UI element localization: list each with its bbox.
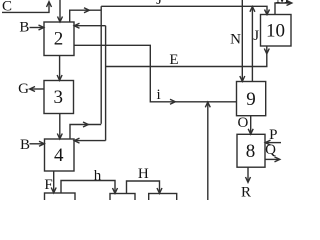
box 9 [237, 82, 266, 116]
svg-text:G: G [18, 81, 29, 97]
arrowhead E into box 2 [74, 23, 79, 28]
arrowhead into box 2 top [58, 17, 63, 22]
arrowhead J into box 10 top [265, 10, 270, 15]
arrowhead E down below box 10 [264, 49, 269, 54]
wire E branch into box 4 right [75, 140, 106, 142]
arrowhead box 4 J branch right [83, 122, 88, 127]
arrowhead B into box 4 [39, 141, 44, 146]
arrowhead H down [157, 188, 162, 193]
arrowhead riser up [205, 102, 210, 107]
arrowhead E into box 4 [74, 138, 79, 143]
svg-text:P: P [269, 127, 277, 143]
svg-text:J: J [156, 0, 162, 8]
wire B feed into box 2 [30, 27, 44, 29]
svg-text:R: R [241, 185, 251, 201]
svg-text:M: M [276, 0, 289, 7]
wire h from box 5 to box 6 [61, 181, 115, 194]
wire J branch from box 4 top [70, 125, 101, 140]
svg-text:F: F [44, 177, 52, 193]
svg-text:B: B [19, 19, 29, 35]
svg-text:O: O [237, 115, 248, 131]
svg-text:N: N [230, 32, 241, 48]
svg-text:E: E [169, 52, 178, 68]
wire G output from box 3 [30, 88, 44, 90]
box 2 [44, 22, 74, 56]
svg-text:3: 3 [54, 87, 64, 108]
svg-text:Q: Q [265, 142, 276, 158]
arrowhead into box 3 top [57, 75, 62, 80]
wire N feed into box 9 [241, 0, 243, 81]
arrowhead M right [287, 1, 292, 6]
arrowhead into box 4 top [57, 134, 62, 139]
arrowhead i right [170, 99, 175, 104]
svg-text:8: 8 [246, 141, 256, 162]
box 10 [261, 15, 292, 47]
wire F from box 4 to box 5 [53, 171, 55, 193]
box 3 [44, 81, 74, 114]
arrowhead J riser up [250, 7, 255, 12]
wire J branch from box 2 top [70, 10, 102, 22]
wire H from box 6 to box 7 [127, 181, 160, 194]
wire J riser from box 9 top [251, 6, 253, 81]
svg-text:10: 10 [266, 21, 285, 42]
wire box 3 to box 4 [59, 114, 61, 139]
svg-text:J: J [253, 28, 259, 44]
wire M output from box 10 [275, 3, 292, 15]
arrowhead R down [246, 177, 251, 182]
box 5 (bottom, cropped) [45, 193, 76, 205]
svg-text:h: h [94, 168, 102, 184]
wire box 2 to box 3 [59, 56, 61, 81]
wire E vertical split [105, 26, 107, 141]
arrowhead C up [47, 2, 52, 7]
arrowhead B into box 2 [39, 25, 44, 30]
wire P feed into box 8 [266, 142, 282, 144]
svg-text:2: 2 [54, 29, 64, 50]
svg-text:C: C [2, 0, 12, 14]
svg-text:4: 4 [54, 145, 64, 166]
arrowhead P into box 8 [265, 140, 270, 145]
svg-text:9: 9 [246, 89, 256, 110]
wire J vertical collector [100, 6, 102, 124]
svg-text:B: B [20, 137, 30, 153]
arrowhead Q right [275, 157, 280, 162]
wire i from box 2 right to box 9 [74, 45, 237, 102]
arrowhead N down into box 9 [240, 76, 245, 81]
svg-text:H: H [138, 166, 149, 182]
box 4 [45, 139, 75, 171]
arrowhead G left [30, 87, 35, 92]
wire R output from box 8 [247, 167, 249, 182]
arrowhead F down [51, 188, 56, 193]
arrowhead J branch right [84, 8, 89, 13]
wire O from box 9 to box 8 [250, 116, 252, 134]
wire Q output from box 8 [265, 158, 280, 160]
wire feed into box 2 top [59, 0, 61, 22]
svg-text:i: i [157, 87, 161, 103]
box 6 (bottom, cropped) [110, 194, 135, 206]
box 8 [237, 134, 265, 167]
wire E from box 10 bottom [106, 46, 267, 67]
wire E branch into box 2 right [75, 25, 106, 27]
arrowhead O down into box 8 [248, 129, 253, 134]
box 7 (bottom, cropped) [149, 194, 177, 206]
wire B feed into box 4 [30, 143, 45, 145]
wire C output [2, 2, 49, 12]
arrowhead h down [113, 188, 118, 193]
wire J top horizontal to box 10 [101, 6, 267, 14]
wire riser from bottom into i line [207, 102, 209, 200]
